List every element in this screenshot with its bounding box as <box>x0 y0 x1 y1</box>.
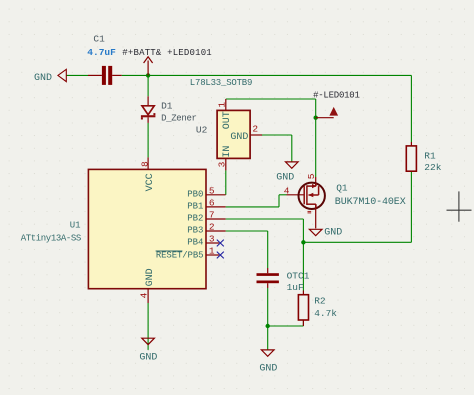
svg-text:4: 4 <box>284 185 290 196</box>
svg-text:GND: GND <box>34 73 52 84</box>
svg-text:7: 7 <box>209 210 215 221</box>
svg-text:1: 1 <box>209 246 215 257</box>
svg-text:GND: GND <box>276 173 294 184</box>
svg-text:#-LED0101: #-LED0101 <box>313 90 360 100</box>
svg-text:ATtiny13A-SS: ATtiny13A-SS <box>21 234 81 244</box>
svg-text:C1: C1 <box>93 34 105 45</box>
svg-text:RESET/PB5: RESET/PB5 <box>156 250 204 260</box>
svg-text:22k: 22k <box>424 162 441 173</box>
svg-text:PB2: PB2 <box>187 214 203 224</box>
svg-text:D1: D1 <box>161 100 173 111</box>
svg-text:BUK7M10-40EX: BUK7M10-40EX <box>335 197 406 208</box>
svg-text:GND: GND <box>145 268 156 286</box>
svg-text:PB4: PB4 <box>187 238 203 248</box>
svg-text:U2: U2 <box>196 124 208 135</box>
svg-text:4.7k: 4.7k <box>314 308 337 319</box>
svg-text:GND: GND <box>139 352 157 363</box>
svg-text:PB3: PB3 <box>187 226 203 236</box>
svg-text:OTC1: OTC1 <box>287 270 310 281</box>
svg-text:4: 4 <box>138 292 149 298</box>
svg-text:D_Zener: D_Zener <box>161 113 197 123</box>
svg-text:U1: U1 <box>70 220 81 230</box>
svg-text:GND: GND <box>259 364 277 375</box>
svg-text:Q1: Q1 <box>336 182 348 193</box>
svg-text:OUT: OUT <box>222 111 233 129</box>
svg-text:1uF: 1uF <box>287 282 304 293</box>
svg-text:5: 5 <box>306 173 317 179</box>
svg-text:2: 2 <box>209 222 215 233</box>
svg-text:4.7uF: 4.7uF <box>87 47 116 58</box>
svg-text:#+BATT& +LED0101: #+BATT& +LED0101 <box>122 48 212 58</box>
svg-text:IN: IN <box>222 146 233 158</box>
svg-text:R1: R1 <box>424 150 436 161</box>
svg-text:L78L33_SOTB9: L78L33_SOTB9 <box>190 78 252 88</box>
svg-text:GND: GND <box>230 132 248 143</box>
svg-text:VCC: VCC <box>145 173 156 191</box>
svg-text:PB1: PB1 <box>187 202 203 212</box>
svg-text:3: 3 <box>216 161 227 167</box>
svg-text:6: 6 <box>209 198 215 209</box>
svg-text:1: 1 <box>216 102 227 108</box>
svg-text:2: 2 <box>252 124 258 135</box>
svg-text:8: 8 <box>140 161 151 167</box>
svg-text:5: 5 <box>209 185 215 196</box>
svg-text:3: 3 <box>209 234 215 245</box>
svg-text:R2: R2 <box>314 295 326 306</box>
svg-text:PB0: PB0 <box>187 190 203 200</box>
svg-text:GND: GND <box>324 228 342 239</box>
